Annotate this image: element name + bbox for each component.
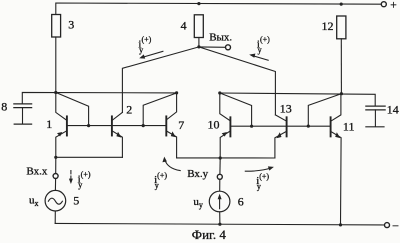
wire source 6 to bottom rail (219, 212, 221, 224)
node rail/Q7 (175, 91, 178, 94)
node base tap Q7 (142, 124, 145, 127)
svg-text:13: 13 (280, 102, 292, 116)
wire base tap to rail/Q11 node (308, 94, 341, 126)
wire base line left group (67, 125, 166, 127)
arrow iy bottom-left (dashed down) (69, 171, 73, 184)
terminal minus (385, 223, 390, 228)
node emitter/input y (219, 156, 222, 159)
wire R3 to node A (55, 37, 57, 93)
svg-text:Фиг. 4: Фиг. 4 (192, 227, 227, 242)
wire emitter U left (56, 156, 123, 158)
wire output node to Q2 collector (122, 47, 198, 113)
arrow iy centre-right (curved up-right) (245, 166, 274, 171)
source U5 (45, 190, 66, 211)
node bottom rail / source 6 (218, 223, 221, 226)
wire R12 to rail (340, 39, 342, 94)
node base tap Q1/Q2 (87, 124, 90, 127)
transistor Q11 (331, 94, 342, 225)
transistor Q10 (220, 93, 231, 158)
terminal Bx.x (53, 174, 58, 179)
arrow iy centre-left (curved up) (162, 157, 180, 171)
source U6 (209, 191, 230, 212)
wire R4 to output node (198, 38, 200, 47)
svg-text:5: 5 (73, 193, 79, 207)
transistor Q1 (56, 93, 67, 158)
wire output node to terminal (199, 46, 226, 48)
svg-text:10: 10 (208, 117, 220, 131)
capacitor C14 (366, 105, 385, 107)
node top-rail/R4 junction (197, 2, 200, 5)
wire collector rail right (220, 93, 375, 106)
arrow iy top-right (249, 54, 268, 61)
transistor Q7 (166, 93, 176, 158)
svg-text:12: 12 (322, 19, 334, 33)
node top-rail/R12 junction (340, 3, 343, 6)
wire base line right group (230, 125, 330, 127)
wire output node to Q13 collector (199, 47, 276, 115)
svg-text:2: 2 (126, 103, 132, 117)
node base tap Q11 (307, 125, 310, 128)
terminal plus (381, 2, 386, 7)
svg-text:Вых.: Вых. (209, 32, 232, 44)
svg-text:14: 14 (387, 102, 399, 116)
node base tap Q10 (250, 125, 253, 128)
arrow iy top-left (139, 51, 163, 58)
node bottom rail / Q11 emitter (339, 223, 342, 226)
wire bottom rail (55, 223, 384, 225)
node output (197, 45, 200, 48)
node rail/Q11/R12 (340, 92, 343, 95)
svg-text:Вх.у: Вх.у (187, 168, 208, 180)
svg-text:1: 1 (46, 117, 52, 131)
svg-text:8: 8 (1, 99, 7, 113)
node A (R3/C8/Q1) (54, 91, 57, 94)
transistor Q2 (112, 112, 123, 157)
wire top rail (56, 3, 382, 15)
svg-text:Вх.х: Вх.х (26, 166, 47, 178)
svg-text:11: 11 (343, 119, 355, 133)
svg-text:6: 6 (238, 194, 244, 208)
resistor R3 (52, 15, 61, 38)
terminal output (226, 45, 231, 50)
svg-text:–: – (392, 220, 399, 232)
wire source 5 to bottom rail (54, 211, 56, 223)
wire node to input y terminal (219, 158, 221, 174)
resistor R12 (337, 16, 346, 39)
terminal Bx.y (217, 174, 222, 179)
wire collector rail left (22, 92, 176, 103)
node emitter/input x (54, 156, 57, 159)
wire base tap to node A (56, 93, 89, 126)
svg-text:7: 7 (178, 118, 184, 132)
wire node to input x terminal (55, 157, 57, 173)
resistor R4 (194, 15, 203, 38)
wire base tap to rail/Q7 node (143, 93, 176, 126)
wire terminal to source 5 (54, 179, 56, 191)
wire emitter U right (177, 157, 275, 159)
capacitor C8 (14, 103, 32, 105)
node rail/Q10 (218, 91, 221, 94)
svg-text:+: + (390, 0, 397, 11)
svg-text:3: 3 (68, 18, 74, 32)
wire base tap to rail/Q10 node (220, 93, 252, 126)
svg-text:4: 4 (181, 19, 187, 33)
wire terminal to source 6 (219, 179, 221, 191)
transistor Q13 (275, 115, 287, 158)
